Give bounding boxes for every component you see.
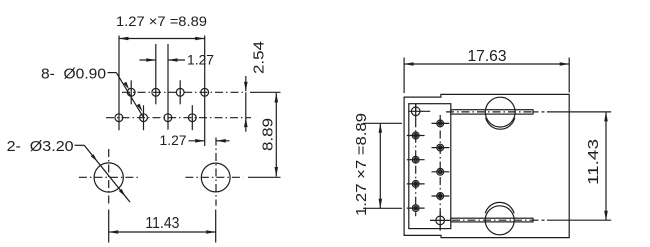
column centerline right	[439, 115, 441, 231]
centerline top row	[122, 91, 246, 93]
svg-text:1.27: 1.27	[160, 132, 187, 148]
bottom lead rod	[451, 218, 533, 222]
dim 1.27 upper arrows	[140, 59, 156, 61]
column centerline left	[415, 104, 417, 216]
svg-text:2.54: 2.54	[251, 41, 268, 74]
svg-text:11.43: 11.43	[585, 139, 602, 185]
top lead rod	[451, 110, 533, 114]
svg-text:2- Ø3.20: 2- Ø3.20	[7, 138, 74, 155]
pin field inner rect	[409, 104, 451, 229]
pins right column	[437, 120, 444, 127]
svg-text:11.43: 11.43	[145, 215, 179, 232]
ext 8.89 bottom	[248, 176, 281, 178]
centerline bottom row	[106, 117, 251, 119]
svg-text:8.89: 8.89	[260, 118, 277, 151]
pin holes bottom row	[115, 114, 123, 122]
leader 0.90	[108, 72, 117, 74]
post hole top-left	[411, 107, 420, 116]
svg-text:8- Ø0.90: 8- Ø0.90	[41, 66, 106, 83]
mounting hole right	[201, 163, 230, 192]
extension line right of top dim	[204, 36, 206, 147]
leader 3.20	[75, 144, 85, 146]
mounting hole left	[94, 163, 123, 192]
svg-text:17.63: 17.63	[468, 48, 507, 65]
pin holes top row	[127, 88, 135, 96]
connector body outline	[404, 94, 569, 237]
svg-text:1.27 ×7 =8.89: 1.27 ×7 =8.89	[353, 113, 370, 216]
ext 8.89 top	[250, 91, 281, 93]
dim line 1.27x7=8.89 top	[119, 38, 205, 40]
svg-text:1.27 ×7 =8.89: 1.27 ×7 =8.89	[116, 13, 207, 29]
post hole bottom-right	[436, 216, 445, 225]
svg-text:1.27: 1.27	[187, 52, 214, 68]
extension line pin2 top row	[155, 44, 157, 104]
screw boss bottom	[485, 206, 514, 235]
extension line left of top dim	[118, 36, 120, 131]
pins left column	[412, 132, 419, 139]
extension line pin3 bottom row	[167, 44, 169, 130]
